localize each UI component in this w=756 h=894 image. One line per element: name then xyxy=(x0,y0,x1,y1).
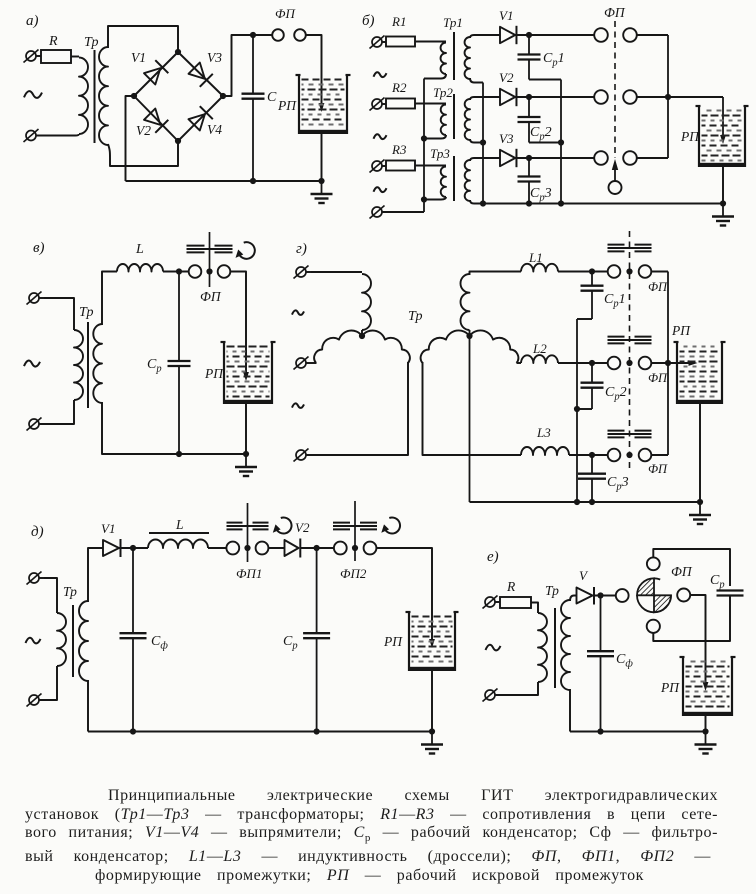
working gap РП vessel (д) xyxy=(406,612,459,671)
wire secondary bottom to bridge (а) xyxy=(108,141,178,166)
terminal input 2 (а) xyxy=(24,129,39,142)
svg-text:РП: РП xyxy=(383,634,403,649)
inductor L (в) xyxy=(117,242,163,272)
rotation arrow (в) xyxy=(236,242,255,259)
wire vessel to rail (а) xyxy=(321,134,323,181)
resistor R1 (б) xyxy=(386,14,415,47)
node Ср2 bus (б) xyxy=(558,139,564,145)
forming gap row2 electrodes (б) xyxy=(594,90,637,104)
svg-text:г): г) xyxy=(296,241,307,257)
wire L2 to gap (г) xyxy=(558,362,608,364)
bottom rail (е) xyxy=(570,731,706,733)
terminal input 2 (д) xyxy=(27,694,42,707)
transformer Тр core (в) xyxy=(87,322,89,408)
capacitor Ср3 (г) xyxy=(578,455,629,502)
AC source symbol 2 (г) xyxy=(292,403,304,408)
wire V1 to L (д) xyxy=(119,547,148,549)
wire row2 to РП (г) xyxy=(651,362,694,364)
ФП label (в) xyxy=(200,289,222,304)
svg-text:Ср: Ср xyxy=(710,573,725,591)
node vessel rail (г) xyxy=(697,499,703,505)
forming gap ФП electrodes (в) xyxy=(189,265,231,278)
rotating disc axis (в) xyxy=(209,232,211,287)
gap right electrode (е) xyxy=(677,589,690,602)
node after V2 (д) xyxy=(314,545,320,551)
wire Тр2 secondary bottom (б) xyxy=(470,139,483,143)
svg-text:РП: РП xyxy=(671,323,691,338)
node axis row3 (г) xyxy=(626,452,632,458)
svg-text:ФП: ФП xyxy=(648,371,668,385)
capacitor C (а) xyxy=(242,35,278,181)
capacitor Ср (д) xyxy=(283,548,330,732)
ground (а) xyxy=(311,181,333,203)
primary winding phase A (г) xyxy=(362,274,371,336)
rotating disc side view (в) xyxy=(187,246,233,253)
transformer Тр1 secondary xyxy=(465,37,470,79)
wire R1 to Тр1 (б) xyxy=(415,41,446,43)
ground (д) xyxy=(421,732,443,754)
AC source symbol (в) xyxy=(24,361,40,367)
svg-text:Ср2: Ср2 xyxy=(530,125,552,143)
transformer Тр primary (в) xyxy=(74,330,83,400)
wire gap to РП (в) xyxy=(230,272,246,377)
node after V (е) xyxy=(597,592,603,598)
svg-text:Тр: Тр xyxy=(408,309,422,324)
transformer Тр2 secondary xyxy=(465,99,470,140)
svg-text:V1: V1 xyxy=(101,521,115,536)
diode bridge edges (а) xyxy=(134,52,223,141)
node right bus row2 (г) xyxy=(665,360,671,366)
node Ср3 rail (г) xyxy=(589,499,595,505)
svg-text:C: C xyxy=(267,90,277,105)
wire secondary top to V (е) xyxy=(570,596,577,602)
transformer Тр3 core xyxy=(453,156,455,201)
secondary arch windings (г) xyxy=(421,330,519,363)
svg-text:ФП: ФП xyxy=(648,462,668,476)
node secondary bus rail (б) xyxy=(480,200,486,206)
wire bus to terminal 4 (б) xyxy=(382,211,424,213)
transformer Тр label (в) xyxy=(79,305,93,320)
wire arch left to L3 (г) xyxy=(423,362,522,455)
svg-text:L1: L1 xyxy=(528,250,543,265)
AC source symbol (е) xyxy=(486,645,501,651)
wire row2 to right bus (б) xyxy=(637,96,668,98)
rotating disc top (г) xyxy=(608,245,652,252)
svg-text:Сф: Сф xyxy=(616,652,633,670)
wire terminal2 to arch (г) xyxy=(311,362,317,364)
capacitor Ср2 (г) xyxy=(581,363,627,409)
transformer Тр secondary (д) xyxy=(79,601,88,681)
right bus (г) xyxy=(667,272,669,456)
bottom rail (б) xyxy=(483,203,723,205)
node bridge top (а) xyxy=(175,49,181,55)
wire Ср2 to bus (г) xyxy=(577,408,592,410)
bottom rail (а) xyxy=(126,180,322,182)
svg-text:ФП: ФП xyxy=(200,289,222,304)
terminal input 2 (б) xyxy=(370,98,387,111)
svg-text:Тр: Тр xyxy=(545,583,559,598)
wire secondary top to L1 (г) xyxy=(470,272,522,276)
terminal input 1 (а) xyxy=(24,50,42,63)
transformer Тр primary (е) xyxy=(538,613,547,682)
transformer Тр primary winding (а) xyxy=(79,58,88,135)
svg-text:Тр: Тр xyxy=(84,35,98,50)
svg-text:ФП: ФП xyxy=(604,5,626,20)
wire ФП1 to V2 (д) xyxy=(268,547,284,549)
wire L1 to gap (г) xyxy=(558,271,608,273)
РП label (а) xyxy=(277,98,297,113)
wire V2 to gap (б) xyxy=(515,96,594,98)
node V3 cathode (б) xyxy=(526,155,532,161)
wire L to gap (в) xyxy=(163,271,189,273)
svg-text:Ср: Ср xyxy=(283,634,298,652)
svg-text:L2: L2 xyxy=(532,341,547,356)
РП label (в) xyxy=(204,366,224,381)
wire vessel to rail (д) xyxy=(431,671,433,732)
node Ср bottom (в) xyxy=(176,451,182,457)
ground (б) xyxy=(712,204,734,226)
axis dashed (г) xyxy=(629,231,631,471)
terminal input 1 (д) xyxy=(27,572,45,585)
diode V3 (а) xyxy=(189,50,223,87)
wire row1 to bus (г) xyxy=(651,271,668,273)
svg-text:РП: РП xyxy=(277,98,297,113)
wire R3 to Тр3 (б) xyxy=(415,165,446,167)
РП electrode arrow (д) xyxy=(429,639,435,648)
node axis row2 (г) xyxy=(626,360,632,366)
node vessel rail (в) xyxy=(243,451,249,457)
wire Ср2 to bus (б) xyxy=(529,142,561,144)
svg-text:б): б) xyxy=(362,13,375,29)
diode V1 (д) xyxy=(101,521,121,557)
terminal input 1 (г) xyxy=(294,266,312,279)
rotating electrode circle (б) xyxy=(609,181,622,194)
terminal input 1 (б) xyxy=(370,36,387,49)
РП electrode arrow (е) xyxy=(703,682,709,691)
svg-text:R3: R3 xyxy=(391,142,407,157)
transformer Тр label (д) xyxy=(63,584,77,599)
ФП1 axis (д) xyxy=(247,503,249,562)
svg-text:V1: V1 xyxy=(499,8,513,23)
diode V1 (а) xyxy=(131,50,168,85)
node Ср3 top (г) xyxy=(589,452,595,458)
svg-text:в): в) xyxy=(33,240,45,256)
transformer Тр secondary (в) xyxy=(93,324,102,403)
node bridge left (а) xyxy=(131,93,137,99)
РП electrode arrow (в) xyxy=(243,372,249,381)
node Сф rail (е) xyxy=(597,728,603,734)
node V1 cathode (б) xyxy=(526,32,532,38)
svg-text:Ср: Ср xyxy=(147,357,162,375)
node Ср top (в) xyxy=(176,268,182,274)
wire R2 to Тр2 (б) xyxy=(415,103,446,105)
wire vessel to rail (е) xyxy=(705,716,707,732)
bottom rail (г) xyxy=(470,501,701,503)
capacitor Ср (е) xyxy=(710,573,744,596)
wire V1 to gap (б) xyxy=(515,34,594,36)
svg-text:Тр1: Тр1 xyxy=(443,15,463,30)
wire V3 to gap (б) xyxy=(515,157,594,159)
РП label (д) xyxy=(383,634,403,649)
svg-text:РП: РП xyxy=(680,129,700,144)
capacitor Сф (е) xyxy=(587,596,633,732)
node bridge right (а) xyxy=(220,93,226,99)
capacitor bus (б) xyxy=(560,80,562,204)
node right bus row2 (б) xyxy=(665,94,671,100)
axis arrow up (б) xyxy=(612,159,618,181)
transformer Тр3 primary xyxy=(441,167,446,198)
transformer Тр3 secondary xyxy=(465,160,470,201)
primary bus (б) xyxy=(423,79,425,213)
wire Ср1 to bus (г) xyxy=(577,318,592,320)
capacitor Сф (д) xyxy=(120,548,169,732)
schematic б) label xyxy=(362,13,375,29)
wire vessel to rail (в) xyxy=(245,404,247,454)
svg-text:ФП2: ФП2 xyxy=(340,566,367,581)
svg-text:L3: L3 xyxy=(536,425,551,440)
ground (г) xyxy=(689,502,711,524)
resistor R2 (б) xyxy=(386,80,415,109)
rotating disc bottom (г) xyxy=(608,431,652,438)
node vessel rail (д) xyxy=(429,728,435,734)
working gap РП vessel (г) xyxy=(674,342,726,404)
wire bridge left node down (а) xyxy=(126,96,135,181)
svg-text:V2: V2 xyxy=(499,70,514,85)
schematic в) label xyxy=(33,240,45,256)
node after V1 (д) xyxy=(130,545,136,551)
wire secondary bottom (е) xyxy=(569,689,571,732)
wire secondary bottom (д) xyxy=(87,680,89,732)
wire row1 to right bus (б) xyxy=(637,34,668,36)
node axis row1 (г) xyxy=(626,268,632,274)
node vessel rail (б) xyxy=(720,200,726,206)
svg-text:ФП: ФП xyxy=(648,280,668,294)
svg-text:РП: РП xyxy=(204,366,224,381)
node secondary bus Тр2 (б) xyxy=(480,139,486,145)
capacitor Ср (в) xyxy=(147,272,191,455)
rotating disc ФП2 (д) xyxy=(333,523,377,530)
svg-text:R1: R1 xyxy=(391,14,406,29)
node axis (в) xyxy=(206,268,212,274)
wire L3 to gap (г) xyxy=(569,454,608,456)
bottom rail (д) xyxy=(88,731,432,733)
primary star point (г) xyxy=(359,333,365,339)
terminal input 2 (в) xyxy=(27,418,42,431)
rotating disc sectors (е) xyxy=(637,578,671,612)
node Ср1 top (г) xyxy=(589,268,595,274)
inductor L core (д) xyxy=(149,532,209,534)
AC source symbol 1 (б) xyxy=(374,72,387,77)
wire to primary phase A (г) xyxy=(311,271,362,273)
wire ФП2 to РП (д) xyxy=(376,548,432,643)
wire arch to terminal 3 (г) xyxy=(306,362,408,455)
svg-text:Тр: Тр xyxy=(63,584,77,599)
svg-text:L: L xyxy=(175,517,184,532)
transformer Тр core (а) xyxy=(94,50,96,143)
node capacitor top (а) xyxy=(250,32,256,38)
svg-text:д): д) xyxy=(31,524,44,540)
wire gap to РП electrode (а) xyxy=(306,35,322,107)
svg-text:V4: V4 xyxy=(207,122,222,137)
inductor L1 (г) xyxy=(521,250,558,272)
wire resistor to primary (а) xyxy=(71,56,79,58)
transformer Тр3 label xyxy=(430,146,450,161)
node Ср3 rail (б) xyxy=(526,200,532,206)
svg-text:L: L xyxy=(135,242,144,257)
AC source symbol 1 (г) xyxy=(292,310,304,315)
РП label (б) xyxy=(680,129,700,144)
transformer Тр1 primary xyxy=(441,43,446,75)
РП label (е) xyxy=(660,680,680,695)
ФП1 label (д) xyxy=(236,566,262,581)
wire right electrode to РП (е) xyxy=(690,595,705,687)
schematic г) label xyxy=(296,241,307,257)
ground (в) xyxy=(235,454,257,476)
rotating electrode axis dashed (б) xyxy=(614,21,616,158)
wire Тр3 secondary bottom (б) xyxy=(470,200,483,204)
forming gap ФП1 electrodes (д) xyxy=(226,542,268,555)
ФП2 axis (д) xyxy=(354,501,356,561)
svg-text:Ср2: Ср2 xyxy=(605,385,627,403)
svg-text:Ср1: Ср1 xyxy=(604,292,626,310)
wire V to gap (е) xyxy=(594,595,616,597)
schematic д) label xyxy=(31,524,44,540)
forming gap row1 electrodes (б) xyxy=(594,28,637,42)
svg-text:R: R xyxy=(48,34,58,49)
rotating disc ФП1 (д) xyxy=(227,523,269,530)
wire Тр3 primary to bus (б) xyxy=(424,197,446,200)
secondary star point (г) xyxy=(466,333,472,339)
wire arch right to L2 (г) xyxy=(517,362,522,364)
transformer Тр2 primary xyxy=(441,104,446,135)
forming gap row1 (г) xyxy=(608,265,668,294)
rotation arrow ФП2 (д) xyxy=(381,518,400,534)
svg-text:V1: V1 xyxy=(131,50,146,65)
rotating disc mid (г) xyxy=(608,337,652,344)
transformer Тр core (е) xyxy=(554,608,556,688)
РП electrode arrow (г) xyxy=(689,360,698,366)
resistor R3 (б) xyxy=(386,142,415,171)
wire Тр1 primary to bus (б) xyxy=(424,74,446,79)
svg-text:е): е) xyxy=(487,549,499,565)
wire secondary top to L (в) xyxy=(102,272,117,326)
node Ср2 bus (г) xyxy=(574,406,580,412)
capacitor Ср3 (б) xyxy=(518,158,552,204)
working gap РП vessel (в) xyxy=(221,342,276,404)
transformer Тр label (а) xyxy=(84,35,98,50)
ФП label (е) xyxy=(671,564,693,579)
terminal input 2 (е) xyxy=(483,689,498,702)
svg-text:V2: V2 xyxy=(295,520,310,535)
transformer Тр secondary (е) xyxy=(561,600,570,690)
working gap РП vessel (е) xyxy=(680,657,736,716)
svg-text:ФП: ФП xyxy=(671,564,693,579)
wire Ср to bottom electrode (е) xyxy=(653,596,730,642)
wire Тр3 secondary top (б) xyxy=(470,158,500,161)
diode V2 (б) xyxy=(499,70,516,106)
node vessel rail (е) xyxy=(702,728,708,734)
svg-text:Тр2: Тр2 xyxy=(433,85,453,100)
svg-text:R: R xyxy=(506,579,516,594)
inductor L3 (г) xyxy=(521,425,569,455)
capacitor Ср2 (б) xyxy=(518,97,552,143)
svg-text:Ср1: Ср1 xyxy=(543,51,565,69)
wire secondary top to bridge (а) xyxy=(108,26,178,52)
wire row3 to bus (г) xyxy=(651,454,668,456)
ФП2 label (д) xyxy=(340,566,367,581)
svg-text:РП: РП xyxy=(660,680,680,695)
diode V2 (д) xyxy=(285,520,310,558)
wire Тр1 secondary top (б) xyxy=(470,35,500,38)
wire primary to terminal 2 (е) xyxy=(495,682,538,695)
node V2 cathode (б) xyxy=(526,94,532,100)
transformer Тр secondary winding (а) xyxy=(99,47,108,145)
node cap bus rail (б) xyxy=(558,200,564,206)
transformer Тр2 label xyxy=(433,85,453,100)
capacitor Ср1 (г) xyxy=(581,272,626,320)
gap left electrode (е) xyxy=(616,589,629,602)
ground (е) xyxy=(695,732,717,754)
working gap РП vessel (б) xyxy=(696,106,749,167)
terminal input 1 (в) xyxy=(27,292,45,305)
wire bus to РП (б) xyxy=(668,96,723,98)
wire primary to terminal 2 (в) xyxy=(39,400,74,424)
svg-text:R2: R2 xyxy=(391,80,407,95)
svg-text:V3: V3 xyxy=(499,131,514,146)
transformer Тр1 core xyxy=(453,32,455,80)
svg-text:ФП: ФП xyxy=(275,6,296,21)
forming gap row3 electrodes (б) xyxy=(594,151,637,165)
wire primary bottom to terminal (а) xyxy=(36,134,79,136)
AC source symbol (д) xyxy=(26,638,41,644)
transformer Тр primary (д) xyxy=(57,613,66,666)
wire row3 to right bus (б) xyxy=(637,157,668,159)
node capacitor bottom (а) xyxy=(250,178,256,184)
diode V3 (б) xyxy=(499,131,516,167)
right bus (б) xyxy=(667,35,669,158)
electrode arrow (а) xyxy=(319,103,325,112)
terminal input 1 (е) xyxy=(483,596,501,609)
diode V2 (а) xyxy=(136,109,168,139)
wire to primary (д) xyxy=(44,578,57,613)
wire Тр2 primary to bus (б) xyxy=(424,135,446,139)
svg-text:ФП1: ФП1 xyxy=(236,566,262,581)
secondary winding phase A (г) xyxy=(460,274,469,336)
node primary bus Тр2 (б) xyxy=(421,135,427,141)
cap bus (г) xyxy=(576,319,578,502)
resistor R (е) xyxy=(500,579,531,608)
terminal input 3 (г) xyxy=(294,449,309,462)
resistor R (а) xyxy=(41,34,71,63)
transformer Тр core (д) xyxy=(72,605,74,677)
forming gap ФП electrodes (а) xyxy=(272,6,306,41)
rotation arrow ФП1 (д) xyxy=(273,518,292,534)
capacitor Ср1 (б) xyxy=(518,35,565,80)
svg-text:V3: V3 xyxy=(207,50,222,65)
secondary bus (б) xyxy=(482,83,484,204)
terminal input 2 (г) xyxy=(294,357,312,370)
forming gap row3 (г) xyxy=(608,449,668,476)
node bridge bottom (а) xyxy=(175,138,181,144)
node Ср2 top (г) xyxy=(589,360,595,366)
svg-text:Тр3: Тр3 xyxy=(430,146,450,161)
primary arch windings B C (г) xyxy=(314,331,410,363)
node vessel bottom (а) xyxy=(318,178,324,184)
wire secondary bottom to rail (в) xyxy=(102,402,246,454)
transformer Тр label (г) xyxy=(408,309,422,324)
node axis ФП1 (д) xyxy=(244,545,250,551)
wire top electrode to Ср (е) xyxy=(653,549,730,586)
